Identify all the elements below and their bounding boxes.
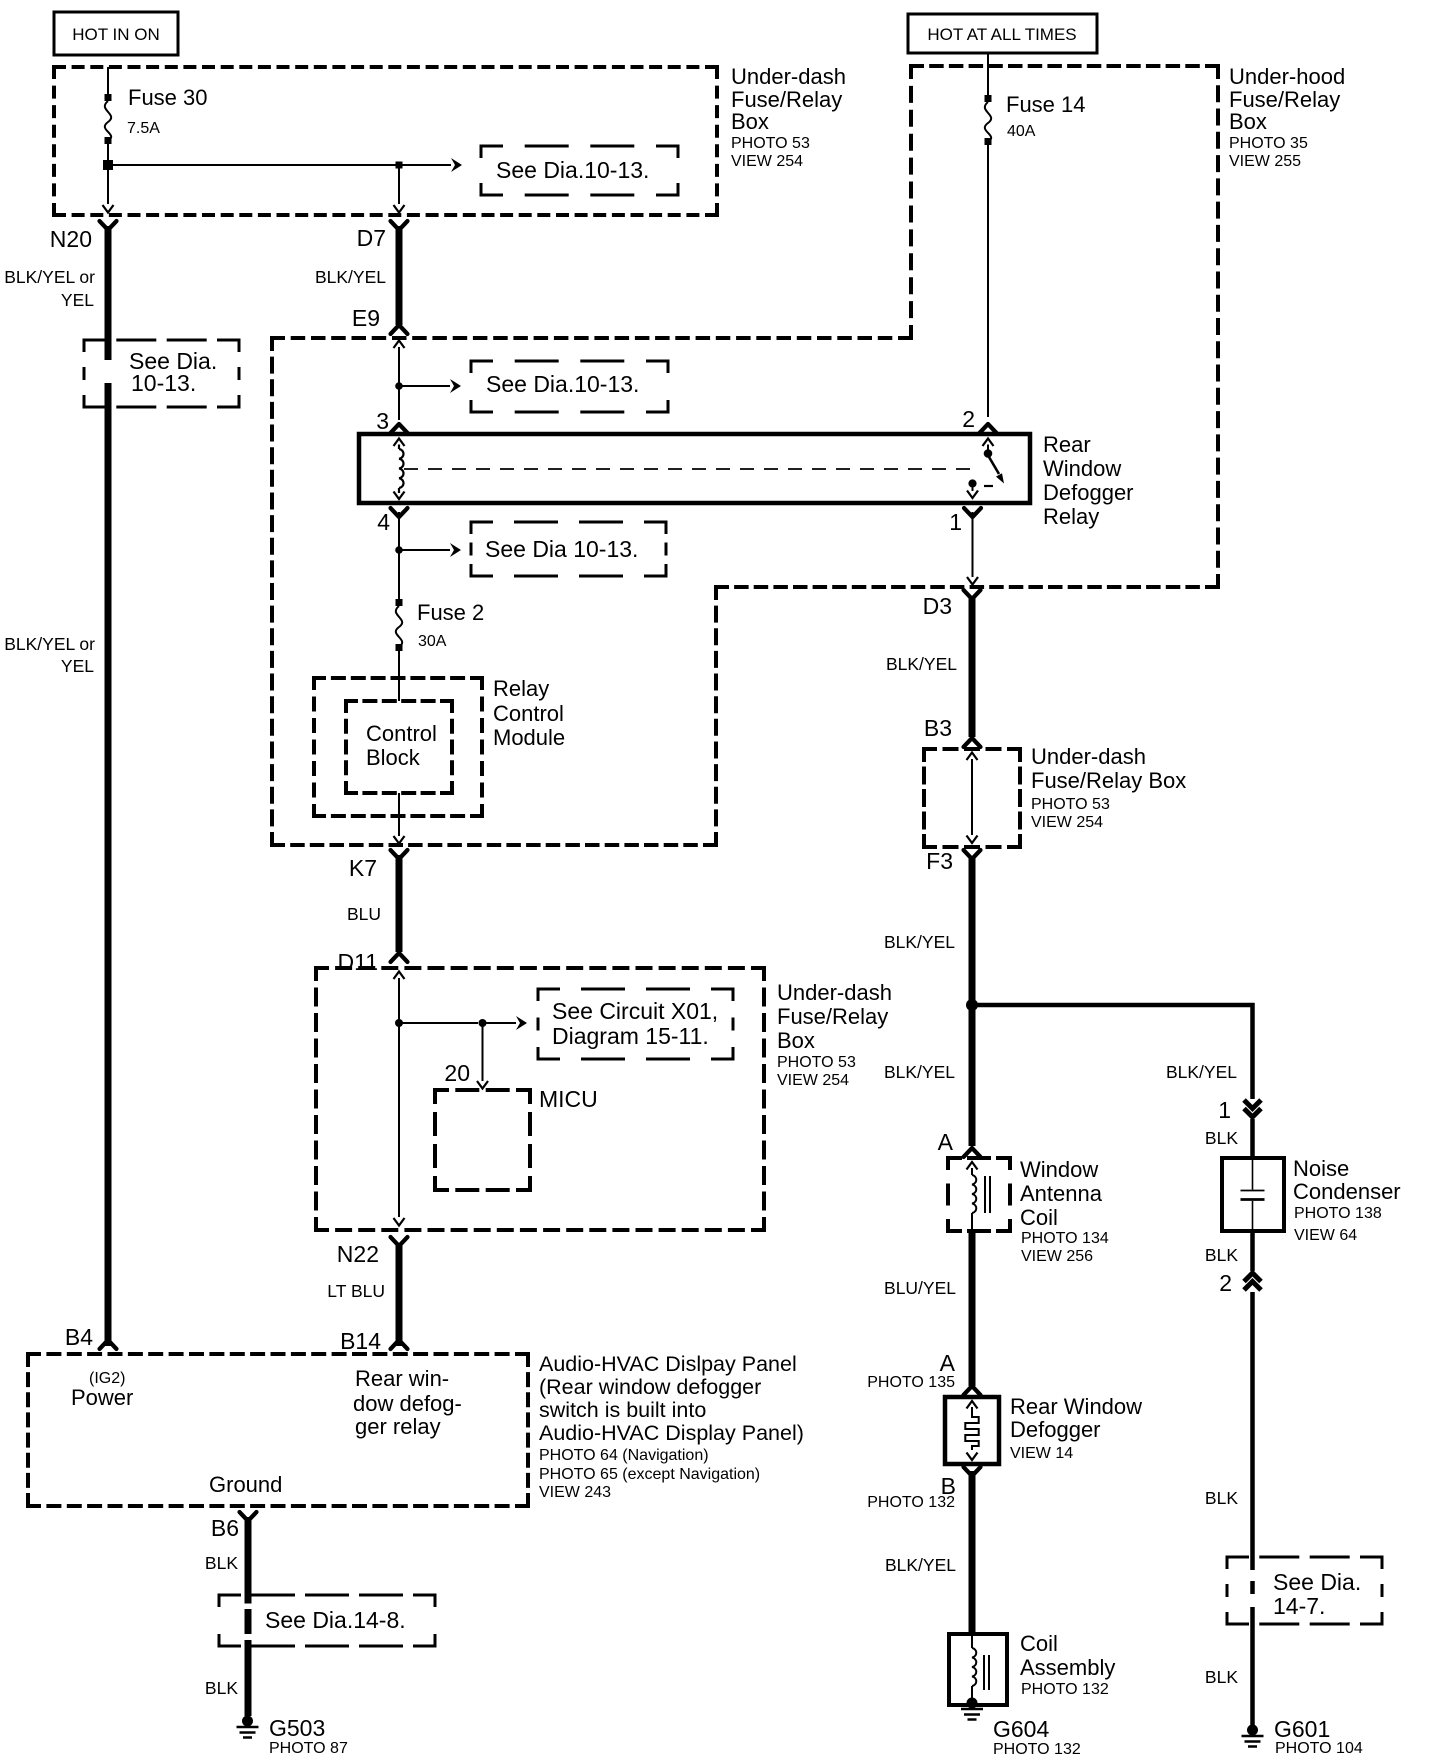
under-dash fuse/relay box (top left, dashed) — [54, 67, 717, 215]
svg-text:PHOTO 132: PHOTO 132 — [867, 1494, 955, 1511]
under-dash fuse/relay box (middle, dashed) — [316, 968, 764, 1230]
node B6 — [240, 1512, 257, 1521]
svg-text:30A: 30A — [418, 633, 447, 650]
svg-text:BLK/YEL: BLK/YEL — [885, 1555, 956, 1575]
node E9 — [391, 325, 408, 334]
svg-text:Antenna: Antenna — [1020, 1181, 1103, 1206]
label: Control Block — [366, 721, 437, 770]
svg-text:BLK/YEL or: BLK/YEL or — [4, 634, 95, 654]
ground G604 — [961, 1698, 983, 1720]
node B14 — [391, 1340, 408, 1349]
pin 20 wire into MICU — [482, 1023, 484, 1081]
wire B to coil assembly (thick) — [969, 1471, 976, 1634]
svg-text:Under-dash: Under-dash — [1031, 744, 1146, 769]
antenna coil winding — [972, 1175, 976, 1213]
label: Audio-HVAC Display Panel block — [539, 1352, 804, 1501]
svg-text:See Dia 10-13.: See Dia 10-13. — [485, 536, 638, 562]
svg-text:PHOTO 53: PHOTO 53 — [777, 1054, 856, 1071]
svg-text:Control: Control — [493, 701, 564, 726]
relay switch pivot dot — [984, 449, 993, 458]
See Dia.10-13. box (mid1) — [471, 361, 668, 412]
svg-text:Fuse/Relay Box: Fuse/Relay Box — [1031, 768, 1186, 793]
svg-text:Coil: Coil — [1020, 1631, 1058, 1656]
junction dot above MICU — [479, 1019, 487, 1027]
label: Window Antenna Coil PHOTO 134 VIEW 256 — [1020, 1157, 1109, 1265]
svg-text:2: 2 — [1219, 1270, 1232, 1296]
svg-text:Condenser: Condenser — [1293, 1179, 1401, 1204]
relay U: Rear Window Defogger Relay (solid box) — [359, 434, 1030, 503]
svg-text:Under-hood: Under-hood — [1229, 64, 1345, 89]
svg-text:BLK/YEL: BLK/YEL — [886, 654, 957, 674]
wire fuse 2 to control block — [398, 651, 400, 701]
svg-text:PHOTO 35: PHOTO 35 — [1229, 135, 1308, 152]
svg-text:Defogger: Defogger — [1043, 480, 1134, 505]
svg-text:PHOTO 64 (Navigation): PHOTO 64 (Navigation) — [539, 1447, 709, 1464]
wire fuse 14 to relay pin 2 — [987, 145, 989, 417]
svg-text:See Dia.10-13.: See Dia.10-13. — [486, 371, 639, 397]
svg-text:PHOTO 135: PHOTO 135 — [867, 1374, 955, 1391]
svg-text:Noise: Noise — [1293, 1156, 1349, 1181]
header box HOT IN ON — [54, 12, 178, 55]
svg-text:Fuse/Relay: Fuse/Relay — [777, 1004, 888, 1029]
svg-text:See Dia.10-13.: See Dia.10-13. — [496, 157, 649, 183]
relay coil arrow bottom — [398, 488, 400, 493]
wire N22 to B14 (thick) — [396, 1243, 403, 1346]
node D3 — [964, 590, 981, 599]
svg-text:Window: Window — [1020, 1157, 1098, 1182]
under-dash fuse/relay box (right, dashed) — [924, 749, 1020, 847]
svg-text:YEL: YEL — [61, 656, 94, 676]
capacitor symbol — [1241, 1160, 1265, 1229]
svg-text:BLK/YEL: BLK/YEL — [315, 267, 386, 287]
svg-text:Ground: Ground — [209, 1472, 282, 1497]
svg-text:K7: K7 — [349, 855, 377, 881]
wire D11 inside box with up arrow — [394, 972, 405, 980]
svg-text:F3: F3 — [926, 848, 953, 874]
svg-text:VIEW 243: VIEW 243 — [539, 1484, 611, 1501]
junction dot on D11 wire — [395, 1019, 403, 1027]
label BLK/YEL or YEL (lower) — [4, 634, 95, 676]
svg-text:See Dia.14-8.: See Dia.14-8. — [265, 1607, 406, 1633]
svg-text:3: 3 — [376, 408, 389, 434]
wire junction to relay pin 3 — [398, 386, 400, 420]
svg-text:BLK/YEL: BLK/YEL — [1166, 1062, 1237, 1082]
header box HOT AT ALL TIMES — [908, 14, 1097, 53]
label: Noise Condenser PHOTO 138 VIEW 64 — [1293, 1156, 1401, 1244]
svg-text:switch is built into: switch is built into — [539, 1398, 706, 1422]
wire pin 4 down to fuse 2 — [398, 512, 400, 599]
label: Relay Control Module — [493, 676, 565, 750]
svg-text:B3: B3 — [924, 715, 952, 741]
svg-text:HOT IN ON: HOT IN ON — [72, 25, 160, 44]
svg-text:Relay: Relay — [1043, 504, 1099, 529]
svg-text:BLK/YEL: BLK/YEL — [884, 932, 955, 952]
junction square above D7 — [396, 162, 403, 169]
fuse 14 — [985, 92, 1086, 145]
svg-text:BLU/YEL: BLU/YEL — [884, 1278, 956, 1298]
wire from top border to fuse 30 — [107, 67, 109, 95]
window antenna coil dashed box — [948, 1158, 1010, 1231]
node K7 — [391, 850, 408, 859]
relay actuation dashed line — [404, 468, 980, 470]
svg-text:14-7.: 14-7. — [1273, 1593, 1325, 1619]
svg-text:7.5A: 7.5A — [127, 120, 160, 137]
svg-text:LT BLU: LT BLU — [327, 1281, 385, 1301]
svg-text:VIEW 256: VIEW 256 — [1021, 1248, 1093, 1265]
svg-text:BLK/YEL: BLK/YEL — [884, 1062, 955, 1082]
relay coil — [399, 449, 403, 488]
wire pin 1 to D3 with arrow — [972, 512, 974, 577]
svg-text:G601: G601 — [1274, 1716, 1330, 1742]
MICU dashed box — [435, 1090, 530, 1190]
svg-text:D3: D3 — [923, 593, 952, 619]
svg-text:(Rear window defogger: (Rear window defogger — [539, 1375, 761, 1399]
svg-text:Window: Window — [1043, 456, 1121, 481]
wire fuse 30 to junction — [107, 144, 109, 165]
svg-text:Fuse 14: Fuse 14 — [1006, 92, 1086, 117]
svg-text:B4: B4 — [65, 1324, 93, 1350]
svg-text:See Dia.: See Dia. — [1273, 1569, 1361, 1595]
label: Under-dash Fuse/Relay Box PHOTO 53 VIEW 254 (top) — [731, 64, 846, 170]
svg-text:PHOTO 134: PHOTO 134 — [1021, 1230, 1109, 1247]
svg-text:B6: B6 — [211, 1515, 239, 1541]
label: Rear Window Defogger VIEW 14 — [1010, 1394, 1142, 1462]
pin 4 of relay — [391, 508, 408, 517]
svg-text:VIEW 64: VIEW 64 — [1294, 1227, 1357, 1244]
svg-text:BLK: BLK — [205, 1553, 238, 1573]
relay pin 2 arrow inside — [983, 439, 994, 447]
See Circuit X01, Diagram 15-11. box — [538, 989, 733, 1059]
svg-text:10-13.: 10-13. — [131, 370, 196, 396]
svg-text:BLK: BLK — [1205, 1488, 1238, 1508]
svg-text:Coil: Coil — [1020, 1205, 1058, 1230]
label Rear window defogger relay (inside panel) — [353, 1366, 462, 1439]
wire junction down to D7 with arrow — [398, 168, 400, 204]
coil assembly L (solid box) — [949, 1634, 1007, 1705]
svg-text:HOT AT ALL TIMES: HOT AT ALL TIMES — [927, 25, 1076, 44]
wire horizontal to See Dia.10-13 (top) — [113, 164, 451, 166]
wire control block to K7 with arrow — [398, 793, 400, 836]
control block inner dashed box — [346, 701, 452, 793]
svg-text:PHOTO 132: PHOTO 132 — [1021, 1681, 1109, 1698]
svg-text:B14: B14 — [340, 1328, 381, 1354]
svg-text:Module: Module — [493, 725, 565, 750]
svg-text:Block: Block — [366, 745, 421, 770]
svg-text:See Circuit X01,: See Circuit X01, — [552, 998, 718, 1024]
relay control module outer dashed box — [314, 678, 482, 816]
svg-text:1: 1 — [949, 509, 962, 535]
svg-text:Fuse 30: Fuse 30 — [128, 85, 208, 110]
node N22 — [391, 1237, 408, 1246]
node B with PHOTO 132 — [964, 1467, 981, 1476]
svg-text:40A: 40A — [1007, 123, 1036, 140]
svg-text:A: A — [940, 1350, 956, 1376]
See Dia 10-13. box (mid2) — [471, 522, 666, 576]
wire D7 to E9 (thick) — [396, 226, 403, 325]
node D7 — [391, 221, 408, 230]
svg-text:Box: Box — [1229, 109, 1267, 134]
ground G503 — [237, 1716, 259, 1738]
relay coil arrow top — [394, 439, 405, 447]
See Dia. 10-13. box (left) — [84, 340, 239, 407]
svg-text:VIEW 14: VIEW 14 — [1010, 1445, 1073, 1462]
svg-text:Diagram 15-11.: Diagram 15-11. — [552, 1023, 709, 1049]
relay pin 1 arrow inside — [972, 488, 974, 492]
relay switch contact dot — [968, 479, 976, 487]
wire to See Circuit X01 — [399, 1022, 478, 1024]
wire chevron 2 down to G601 — [1250, 1292, 1255, 1725]
svg-text:D11: D11 — [338, 949, 379, 975]
svg-text:G604: G604 — [993, 1716, 1049, 1742]
node B4 — [100, 1340, 117, 1349]
junction to See Dia (mid2) — [395, 546, 403, 554]
pin 1 of relay — [964, 508, 981, 517]
svg-text:D7: D7 — [357, 225, 386, 251]
svg-text:BLK/YEL or: BLK/YEL or — [4, 267, 95, 287]
svg-text:A: A — [938, 1129, 954, 1155]
wire branch right — [972, 1005, 1253, 1099]
svg-text:VIEW 254: VIEW 254 — [777, 1072, 849, 1089]
svg-text:Power: Power — [71, 1385, 133, 1410]
svg-text:G503: G503 — [269, 1715, 325, 1741]
ground G601 — [1242, 1725, 1264, 1747]
wire F3 to node A (thick) — [969, 856, 976, 1146]
fuse 2 — [396, 599, 485, 651]
svg-text:BLK: BLK — [205, 1678, 238, 1698]
svg-text:Box: Box — [777, 1028, 815, 1053]
wire inside B3-F3 box with arrows — [967, 753, 978, 761]
under-hood fuse/relay box + relay region boundary (dashed polygon) — [272, 66, 1218, 845]
svg-text:Fuse 2: Fuse 2 — [417, 600, 484, 625]
label: Under-dash Fuse/Relay Box PHOTO 53 VIEW 254 (right) — [1031, 744, 1186, 831]
svg-text:Audio-HVAC Dislpay Panel: Audio-HVAC Dislpay Panel — [539, 1352, 797, 1376]
wire HOT AT ALL TIMES to border — [987, 53, 989, 95]
node A (window antenna coil) — [964, 1148, 981, 1157]
svg-text:PHOTO 104: PHOTO 104 — [1275, 1740, 1363, 1757]
pin 2 of relay — [980, 424, 997, 433]
svg-text:20: 20 — [444, 1060, 470, 1086]
relay switch contact dash — [984, 485, 993, 487]
svg-text:BLK: BLK — [1205, 1667, 1238, 1687]
svg-text:Assembly: Assembly — [1020, 1655, 1115, 1680]
See Dia.10-13. box (top) — [481, 146, 678, 195]
svg-text:VIEW 254: VIEW 254 — [731, 153, 803, 170]
rear window defogger R (solid box) — [945, 1397, 999, 1464]
wire noise condenser to chevron 2 — [1250, 1231, 1255, 1271]
label (IG2) Power — [71, 1370, 133, 1410]
svg-text:4: 4 — [377, 509, 390, 535]
defogger element symbol — [965, 1401, 978, 1460]
label: Coil Assembly PHOTO 132 — [1020, 1631, 1115, 1698]
wire E9 into relay region with up arrow — [394, 341, 405, 349]
svg-text:PHOTO 87: PHOTO 87 — [269, 1740, 348, 1757]
svg-text:2: 2 — [962, 406, 975, 432]
wire chevron to noise condenser — [1250, 1119, 1255, 1158]
svg-text:YEL: YEL — [61, 290, 94, 310]
wire B6 to G503 (thick) — [245, 1517, 252, 1716]
See Dia.14-8. box — [219, 1595, 435, 1646]
svg-text:Rear: Rear — [1043, 432, 1091, 457]
svg-text:MICU: MICU — [539, 1086, 598, 1112]
relay switch blade — [989, 457, 999, 474]
junction square at fuse 30 branch — [103, 160, 113, 170]
svg-text:Control: Control — [366, 721, 437, 746]
node D11 — [391, 953, 408, 962]
svg-text:BLU: BLU — [347, 904, 381, 924]
svg-text:Under-dash: Under-dash — [731, 64, 846, 89]
svg-text:VIEW 255: VIEW 255 — [1229, 153, 1301, 170]
svg-text:VIEW 254: VIEW 254 — [1031, 814, 1103, 831]
wire N20 to B4 (thick) — [105, 226, 112, 1346]
node F3 — [964, 850, 981, 859]
svg-text:Relay: Relay — [493, 676, 549, 701]
coil assembly winding — [972, 1636, 989, 1700]
svg-text:Rear win-: Rear win- — [355, 1366, 449, 1391]
connector pair 2 (double chevron) on branch — [1244, 1273, 1261, 1290]
svg-text:PHOTO 132: PHOTO 132 — [993, 1741, 1081, 1758]
antenna coil arrow inside — [967, 1162, 978, 1170]
svg-text:BLK: BLK — [1205, 1245, 1238, 1265]
antenna coil core lines — [985, 1176, 990, 1213]
svg-text:PHOTO 53: PHOTO 53 — [1031, 796, 1110, 813]
svg-text:PHOTO 65 (except Navigation): PHOTO 65 (except Navigation) — [539, 1466, 760, 1483]
pin 3 of relay — [391, 424, 408, 433]
wire antenna coil to node A (thick) — [969, 1231, 976, 1386]
noise condenser C (solid box) — [1222, 1158, 1284, 1231]
svg-text:Audio-HVAC Display Panel): Audio-HVAC Display Panel) — [539, 1421, 804, 1445]
junction node to noise condenser branch — [966, 999, 978, 1011]
svg-text:BLK: BLK — [1205, 1128, 1238, 1148]
svg-text:Box: Box — [731, 109, 769, 134]
Audio-HVAC display panel dashed box — [28, 1354, 528, 1506]
svg-text:PHOTO 53: PHOTO 53 — [731, 135, 810, 152]
svg-text:N22: N22 — [337, 1241, 379, 1267]
svg-text:1: 1 — [1218, 1097, 1231, 1123]
label: Under-dash Fuse/Relay Box PHOTO 53 VIEW 254 (middle) — [777, 980, 892, 1089]
connector pair 1 (double chevron) on branch — [1244, 1100, 1261, 1117]
node A (defogger) with PHOTO 135 — [964, 1386, 981, 1395]
label: Rear Window Defogger Relay — [1043, 432, 1134, 529]
svg-text:E9: E9 — [352, 305, 380, 331]
wire D3 to B3 (thick) — [969, 596, 976, 737]
wire junction down to N20 with arrow — [107, 170, 109, 204]
svg-text:Under-dash: Under-dash — [777, 980, 892, 1005]
svg-text:dow defog-: dow defog- — [353, 1391, 462, 1416]
node B3 — [964, 738, 981, 747]
label: Under-hood Fuse/Relay Box PHOTO 35 VIEW 255 — [1229, 64, 1345, 170]
node N20 — [100, 221, 117, 230]
fuse 30 — [105, 85, 208, 144]
svg-text:Rear Window: Rear Window — [1010, 1394, 1142, 1419]
wire K7 to D11 (thick) — [396, 855, 403, 952]
svg-text:N20: N20 — [50, 226, 92, 252]
label BLK/YEL or YEL (upper) — [4, 267, 95, 310]
svg-text:Defogger: Defogger — [1010, 1417, 1101, 1442]
svg-text:PHOTO 138: PHOTO 138 — [1294, 1205, 1382, 1222]
See Dia. 14-7. box — [1227, 1557, 1382, 1624]
node: junction to See Dia (mid1) — [395, 382, 403, 390]
svg-text:ger relay: ger relay — [355, 1414, 441, 1439]
